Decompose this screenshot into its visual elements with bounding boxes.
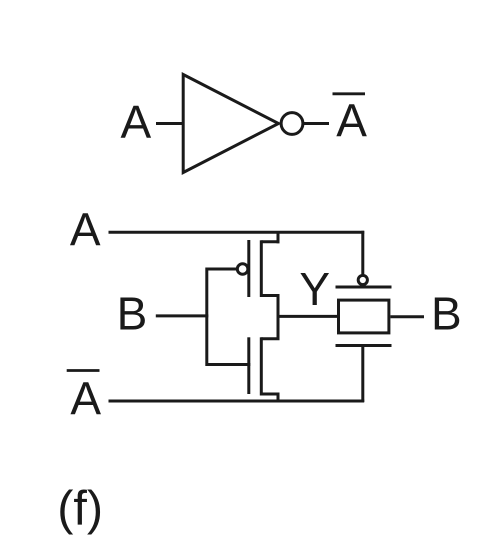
transmission gate T1 bottom gate bar <box>336 344 392 347</box>
figure caption (f) <box>57 482 103 536</box>
node A (top rail label) <box>70 203 101 255</box>
wire (transmission gate output to node B) <box>391 315 425 318</box>
node A (inverter input label) <box>121 96 152 148</box>
transistor Q1 channel plate <box>260 240 263 297</box>
svg-text:A: A <box>336 95 367 147</box>
wire (bottom gate bar stem down to A-bar rail) <box>361 346 364 403</box>
wire (Q1 source stub down to node Y) <box>277 296 280 319</box>
node B (right output label) <box>431 288 462 340</box>
node B (left input label) <box>117 288 148 340</box>
wire (node Y stub down to Q2 drain) <box>277 316 280 338</box>
wire (gate feed vertical) <box>205 268 208 367</box>
svg-text:B: B <box>117 288 148 340</box>
node A-bar (bottom rail label) <box>70 373 101 425</box>
transistor Q1 gate bubble (PMOS) <box>237 264 248 275</box>
inverter U1 output bubble <box>281 113 303 135</box>
transmission gate T1 top gate bar <box>336 286 392 289</box>
transmission gate T1 body box <box>339 300 389 333</box>
transmission gate T1 top gate bubble <box>358 275 367 284</box>
wire (Q2 source stub down to A-bar rail) <box>277 394 280 402</box>
node Y label <box>299 263 330 315</box>
transistor Q1 source lead (bottom) <box>261 294 279 297</box>
transistor Q2 drain lead (top) <box>261 337 279 340</box>
node A-bar (bottom rail label overline) <box>67 369 100 372</box>
transistor Q2 source lead (bottom) <box>261 393 279 396</box>
wire (inverter output) <box>304 122 329 125</box>
wire (gate lead to Q2 gate) <box>207 363 251 366</box>
wire (junction stub from A rail down to Q1 drain) <box>277 232 280 243</box>
wire (A rail branch down to transmission-gate top gate) <box>361 231 364 274</box>
svg-text:B: B <box>431 288 462 340</box>
svg-text:Y: Y <box>299 263 330 315</box>
wire (inverter input) <box>156 122 184 125</box>
wire Y (from pass-transistor rail to transmission gate) <box>277 315 338 318</box>
wire A (top horizontal rail) <box>109 231 365 234</box>
svg-text:(f): (f) <box>57 482 103 536</box>
wire A-bar (bottom horizontal rail) <box>109 400 365 403</box>
wire (gate lead to Q1 bubble) <box>207 268 237 271</box>
inverter U1 triangle <box>183 75 278 173</box>
node A-bar (inverter output label) <box>336 95 367 147</box>
svg-text:A: A <box>70 203 101 255</box>
wire B (from left B label to gate feed) <box>156 314 209 317</box>
transistor Q2 channel plate <box>260 337 263 395</box>
svg-text:A: A <box>70 373 101 425</box>
transistor Q2 gate plate (NMOS) <box>247 337 250 394</box>
transistor Q1 gate plate <box>247 240 250 297</box>
svg-text:A: A <box>121 96 152 148</box>
transistor Q1 drain lead (top) <box>261 240 279 243</box>
node A-bar (inverter output label overline) <box>333 92 366 95</box>
